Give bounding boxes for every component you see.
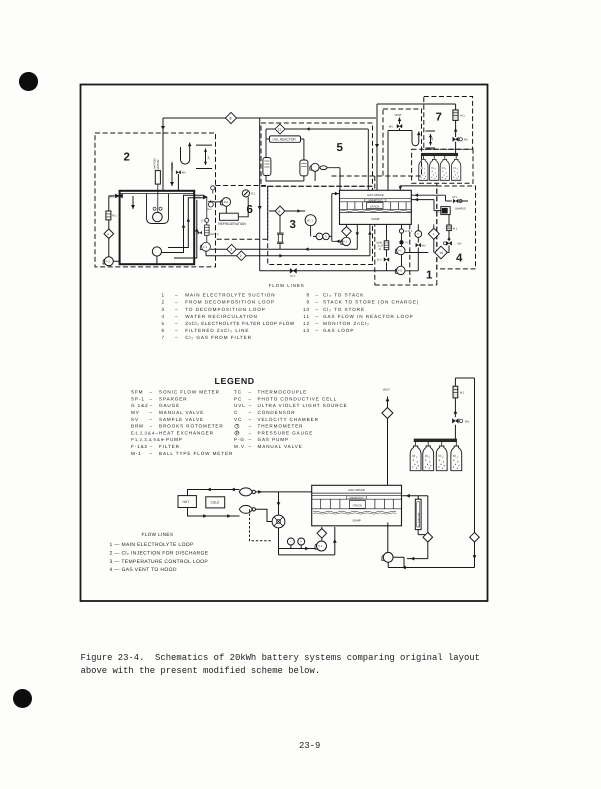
svg-text:–: – xyxy=(150,410,153,415)
bottle CL2 g xyxy=(436,446,447,471)
svg-text:–: – xyxy=(249,410,252,415)
pressure gauge xyxy=(298,538,305,545)
velocity oval xyxy=(320,166,327,170)
svg-text:M 1: M 1 xyxy=(460,115,465,118)
wire M-1 gas column xyxy=(455,104,457,153)
wire to diamond/P-2 xyxy=(346,224,348,237)
svg-text:HEAT EXCHANGER: HEAT EXCHANGER xyxy=(159,430,214,435)
arrow E1 out xyxy=(258,490,262,494)
svg-text:24": 24" xyxy=(208,156,211,160)
chlorine bottle box (dashed) xyxy=(412,149,473,183)
arrow into manifold right 1 xyxy=(415,193,419,197)
arrow monitor out xyxy=(411,557,415,561)
svg-text:3: 3 xyxy=(290,219,296,231)
diamond node 6 xyxy=(275,206,285,216)
pump P-3 xyxy=(104,257,113,266)
svg-text:–: – xyxy=(150,424,153,429)
sample valve SV xyxy=(205,218,209,222)
wire VC down xyxy=(311,226,332,237)
diamond node 8 xyxy=(225,112,236,123)
arrow loop1 up xyxy=(182,224,186,228)
wire flow line 8 top xyxy=(163,117,376,119)
svg-text:GAS LOOP: GAS LOOP xyxy=(323,328,354,333)
svg-text:2: 2 xyxy=(240,254,242,258)
svg-text:PHOTO CONDUCTIVE CELL: PHOTO CONDUCTIVE CELL xyxy=(258,396,338,401)
arrow dim7 dn xyxy=(429,142,432,145)
flow meter M-1 lower xyxy=(453,386,458,398)
svg-text:3: 3 xyxy=(161,307,165,312)
svg-text:G 1: G 1 xyxy=(208,208,213,211)
svg-text:ZnCl₂ ELECTROLYTE FILTER LOOP: ZnCl₂ ELECTROLYTE FILTER LOOP FLOW xyxy=(185,321,295,326)
svg-text:5: 5 xyxy=(161,321,165,326)
valve MV filler xyxy=(176,171,181,174)
svg-text:–: – xyxy=(150,390,153,395)
velocity chamber VC-1 xyxy=(305,215,316,226)
svg-text:P 1: P 1 xyxy=(398,250,402,253)
svg-text:VC: VC xyxy=(234,417,242,422)
svg-text:HOT: HOT xyxy=(183,500,190,504)
svg-text:MONITOR ZnCl₂: MONITOR ZnCl₂ xyxy=(323,321,370,326)
svg-text:–: – xyxy=(249,424,252,429)
arrow sump riser up xyxy=(333,539,337,543)
svg-text:–: – xyxy=(249,390,252,395)
valve MV at BRM-2 xyxy=(198,231,202,234)
sampler chain wire xyxy=(206,198,208,243)
svg-text:FILTER: FILTER xyxy=(159,444,180,449)
arrow gas col up xyxy=(454,128,458,132)
svg-text:VC 1: VC 1 xyxy=(307,218,314,222)
svg-text:FILTERED ZnCl₂ LINE: FILTERED ZnCl₂ LINE xyxy=(185,328,249,333)
flow meter M-1 top xyxy=(453,110,458,121)
svg-text:–: – xyxy=(150,417,153,422)
monitor loop xyxy=(402,496,428,559)
arrow gas return down xyxy=(473,555,477,559)
arrow rail A left xyxy=(305,247,309,251)
arrow dim7 up xyxy=(429,134,432,137)
wire bottles to manifold xyxy=(400,183,437,190)
stack cells lower xyxy=(321,499,394,509)
valve MV under BRM-1 xyxy=(384,258,389,262)
arrow vent lower up xyxy=(386,398,390,402)
hot reservoir box xyxy=(178,496,196,508)
tank draft tube xyxy=(147,194,169,224)
tank inner loop 1 xyxy=(162,195,204,252)
svg-text:8: 8 xyxy=(306,293,310,298)
flow meter M-1 xyxy=(106,211,111,220)
svg-text:1: 1 xyxy=(426,270,433,282)
diamond node 2 xyxy=(237,251,247,261)
diamond node 11 xyxy=(275,124,285,134)
svg-text:MOTOR: MOTOR xyxy=(157,159,160,169)
svg-text:P 3: P 3 xyxy=(106,261,110,264)
svg-text:SP-1: SP-1 xyxy=(131,396,145,401)
wire BRM-1 column xyxy=(386,224,388,270)
gauge G-2 xyxy=(242,190,249,197)
svg-text:SAMPLE: SAMPLE xyxy=(455,207,466,210)
svg-text:PRESSURE GAUGE: PRESSURE GAUGE xyxy=(258,430,314,435)
svg-text:M V: M V xyxy=(291,275,296,278)
svg-text:STACK: STACK xyxy=(370,204,379,208)
svg-text:ULTRA VIOLET LIGHT SOURCE: ULTRA VIOLET LIGHT SOURCE xyxy=(258,403,348,408)
wire reactor loop left xyxy=(266,129,304,160)
arrow P-2 suction xyxy=(336,240,340,244)
UVL reactor labelled box xyxy=(270,136,301,142)
wire P-1 out xyxy=(388,557,474,567)
pump P-5 xyxy=(202,242,211,251)
svg-text:M.V.: M.V. xyxy=(453,196,459,199)
arrow U7 up xyxy=(417,132,421,136)
svg-text:–: – xyxy=(249,430,252,435)
arrow into manifold xyxy=(335,192,339,196)
UV lamp fitting left xyxy=(116,194,123,197)
svg-text:–: – xyxy=(175,321,179,326)
svg-text:MANIFOLD: MANIFOLD xyxy=(368,199,382,202)
svg-text:10: 10 xyxy=(303,307,310,312)
svg-text:12: 12 xyxy=(303,321,310,326)
svg-text:SAMPLE VALVE: SAMPLE VALVE xyxy=(159,417,204,422)
svg-text:G 1&2: G 1&2 xyxy=(131,403,149,408)
wire PC to M-1 xyxy=(448,215,450,225)
arrow down to manifold xyxy=(375,144,379,148)
svg-text:REFRIGERATION: REFRIGERATION xyxy=(218,222,246,226)
svg-text:–: – xyxy=(249,417,252,422)
svg-text:UVL: UVL xyxy=(195,195,201,199)
svg-text:–: – xyxy=(316,328,320,333)
pressure gauge P xyxy=(323,233,330,240)
svg-text:STACK TO STORE (ON CHARGE): STACK TO STORE (ON CHARGE) xyxy=(323,300,419,305)
gauge G on riser xyxy=(211,186,215,190)
seal pot U-tube 24in xyxy=(181,143,213,169)
wire sump drop 2 xyxy=(369,224,371,255)
arrow down into tank xyxy=(161,126,165,130)
rotometer BRM-2 xyxy=(205,225,210,235)
svg-text:2: 2 xyxy=(124,152,130,164)
section box 4 (dashed) xyxy=(437,186,476,269)
svg-text:TC: TC xyxy=(234,390,242,395)
manifold label box xyxy=(365,199,386,202)
arrow pump feed xyxy=(277,502,281,506)
thermometer T xyxy=(316,233,323,240)
svg-text:SUMP: SUMP xyxy=(352,519,360,523)
svg-text:6: 6 xyxy=(161,328,165,333)
svg-text:7: 7 xyxy=(436,112,442,124)
svg-text:1: 1 xyxy=(161,293,165,298)
figure caption xyxy=(81,652,480,677)
wire SFM column xyxy=(401,224,403,266)
svg-text:P: P xyxy=(300,541,302,544)
svg-text:BROOKS ROTOMETER: BROOKS ROTOMETER xyxy=(159,424,224,429)
svg-text:–: – xyxy=(175,328,179,333)
arrow down downcomer xyxy=(258,206,262,210)
svg-text:MV: MV xyxy=(464,138,468,141)
svg-text:7: 7 xyxy=(161,335,165,340)
wire sump drop xyxy=(356,224,358,249)
arrow monitor into manifold xyxy=(406,494,410,498)
wire loop bottom xyxy=(266,168,340,191)
svg-text:Cl₂ TO STORE: Cl₂ TO STORE xyxy=(323,307,365,312)
svg-text:–: – xyxy=(249,396,252,401)
svg-text:FILLER: FILLER xyxy=(171,161,174,170)
agitator shaft xyxy=(157,184,159,212)
wire manifold left riser xyxy=(332,194,342,242)
svg-text:BALL TYPE FLOW METER: BALL TYPE FLOW METER xyxy=(159,451,233,456)
flow meter M-1 xyxy=(447,225,452,231)
pressure gauge P xyxy=(415,231,422,238)
pump P-1 lower xyxy=(383,552,393,562)
arrow outer pipe up xyxy=(195,228,199,232)
svg-text:TO DECOMPOSITION LOOP: TO DECOMPOSITION LOOP xyxy=(185,307,266,312)
valve MV rail C xyxy=(290,268,296,273)
gas return loop right xyxy=(455,378,474,568)
svg-text:Cl₂ MONITOR: Cl₂ MONITOR xyxy=(417,512,420,526)
bottle CL2 e xyxy=(410,446,421,471)
hole punch top xyxy=(19,72,38,91)
bottle CL2 b xyxy=(430,159,439,180)
photo cell PC box xyxy=(441,207,450,215)
tank outer downpipe xyxy=(174,200,197,258)
svg-text:–: – xyxy=(175,335,179,340)
heat exchanger E-1 xyxy=(239,488,252,496)
arrow dim bottom xyxy=(204,162,207,165)
arrow loop top xyxy=(207,488,211,492)
arrow vent up xyxy=(398,118,402,122)
tank inner loop 2 xyxy=(168,198,204,248)
svg-text:P: P xyxy=(325,236,327,239)
svg-text:PC: PC xyxy=(234,396,242,401)
wire pump suction xyxy=(213,201,222,203)
svg-text:11: 11 xyxy=(278,128,282,132)
cold reservoir box xyxy=(206,497,225,508)
figure frame xyxy=(81,85,488,602)
bottle manifold bar xyxy=(421,153,457,156)
heat exchanger E-2 xyxy=(239,505,252,513)
svg-text:MV: MV xyxy=(422,244,426,247)
svg-text:SFM 1: SFM 1 xyxy=(405,230,413,233)
svg-text:4: 4 xyxy=(456,253,463,265)
diamond node 4 xyxy=(104,229,114,239)
arrow loop bottom xyxy=(203,514,207,518)
arrow gas return left xyxy=(402,566,406,570)
bottle CL2 f xyxy=(423,446,434,471)
svg-text:SFM: SFM xyxy=(131,390,143,395)
svg-text:4: 4 xyxy=(161,314,165,319)
wire M-1 to valve xyxy=(447,231,449,253)
left instrument chain xyxy=(103,196,120,266)
svg-text:2: 2 xyxy=(161,300,165,305)
svg-text:M 1: M 1 xyxy=(460,390,465,394)
pump P-4 xyxy=(311,163,319,171)
section box 7 (dashed) xyxy=(424,97,473,150)
sonic flow meter SFM-1 xyxy=(399,229,403,233)
diamond node 3 xyxy=(227,244,237,254)
svg-text:1 — MAIN ELECTROLYTE LOOP: 1 — MAIN ELECTROLYTE LOOP xyxy=(110,542,195,548)
svg-text:G 2: G 2 xyxy=(251,192,256,196)
wire drop into tank xyxy=(162,118,164,191)
pump P-2 in tank xyxy=(152,247,161,256)
hole punch bottom xyxy=(13,689,32,708)
svg-text:GAS SPACE: GAS SPACE xyxy=(367,193,384,197)
pump P-A xyxy=(222,198,231,207)
svg-text:–: – xyxy=(316,307,320,312)
svg-text:6: 6 xyxy=(279,210,281,214)
svg-text:P 1, 2, 3, 4, 5 & 6: P 1, 2, 3, 4, 5 & 6 xyxy=(131,437,164,442)
svg-text:MV: MV xyxy=(458,243,462,246)
svg-text:–: – xyxy=(150,451,153,456)
svg-text:13: 13 xyxy=(303,328,310,333)
svg-text:P-G: P-G xyxy=(234,437,245,442)
pump P-2 xyxy=(342,237,350,245)
svg-text:VELOCITY CHAMBER: VELOCITY CHAMBER xyxy=(258,417,319,422)
svg-text:9: 9 xyxy=(306,300,310,305)
arrow reactor loop xyxy=(306,127,310,131)
pump P-1 xyxy=(397,246,405,254)
section box 6 (dashed) xyxy=(216,186,268,240)
svg-text:MV: MV xyxy=(131,410,140,415)
svg-text:–: – xyxy=(316,293,320,298)
svg-text:MAIN ELECTROLYTE SUCTION: MAIN ELECTROLYTE SUCTION xyxy=(185,293,275,298)
svg-text:FLOW LINES: FLOW LINES xyxy=(269,283,305,288)
vent riser xyxy=(387,397,389,486)
section box 3 (dashed) xyxy=(268,186,373,264)
dimension 24in xyxy=(426,131,436,148)
section box 5 (dashed) xyxy=(261,123,373,186)
arrow store to manifold xyxy=(399,186,402,189)
svg-text:–: – xyxy=(175,293,179,298)
diamond node xyxy=(342,227,352,237)
wire rail B xyxy=(206,251,370,256)
valve MV sample xyxy=(453,199,458,203)
seal pot U-tube 7 xyxy=(388,131,419,146)
condensor C-1 xyxy=(263,158,271,176)
wire main downcomer xyxy=(259,118,261,271)
diamond node P-2 xyxy=(317,529,327,539)
mixing pump with cross xyxy=(272,515,285,528)
svg-text:WATER RECIRCULATION: WATER RECIRCULATION xyxy=(185,314,258,319)
thermocouple TC xyxy=(400,241,403,244)
svg-text:–: – xyxy=(316,314,320,319)
arrow M-1 lower up xyxy=(454,410,458,414)
svg-text:MANUAL VALVE: MANUAL VALVE xyxy=(258,444,303,449)
svg-text:THERMOMETER: THERMOMETER xyxy=(258,424,304,429)
UV lamp fitting right xyxy=(204,195,207,198)
wire reactor loop top xyxy=(266,129,368,191)
pump P-1 in tank xyxy=(153,212,163,222)
svg-text:3 — TEMPERATURE CONTROL LOOP: 3 — TEMPERATURE CONTROL LOOP xyxy=(110,559,209,565)
arrow loop top 2 xyxy=(231,488,235,492)
bottle manifold bar lower xyxy=(414,439,457,442)
svg-text:SUMP: SUMP xyxy=(371,217,379,221)
svg-text:VENT: VENT xyxy=(383,387,391,391)
svg-text:M.V.: M.V. xyxy=(377,259,382,262)
wire rail C bottom xyxy=(260,270,397,272)
diamond gas return xyxy=(470,532,480,542)
right side fittings of tank xyxy=(200,186,215,251)
valve MV section4 xyxy=(446,241,451,245)
svg-text:SONIC FLOW METER: SONIC FLOW METER xyxy=(159,390,220,395)
arrow U-tube up xyxy=(188,143,192,147)
bottle CL2 h xyxy=(451,446,462,471)
stack manifold block lower xyxy=(312,485,402,526)
diamond node 13 xyxy=(435,246,448,259)
section box 2 (dashed) xyxy=(95,133,216,267)
svg-text:–: – xyxy=(150,444,153,449)
svg-text:24": 24" xyxy=(431,137,434,141)
arrow M-1 up xyxy=(447,237,450,240)
gauge G-1 xyxy=(208,202,213,207)
bottle CL2 c xyxy=(440,159,449,180)
thermometer gauge xyxy=(287,538,294,545)
diamond vent xyxy=(382,408,393,419)
wire rail A xyxy=(210,248,357,250)
svg-text:TC: TC xyxy=(405,242,409,245)
filler line with MV valve xyxy=(172,163,178,191)
arrow tank internal xyxy=(131,205,135,209)
svg-text:–: – xyxy=(150,403,153,408)
pump P-2 xyxy=(317,541,327,551)
svg-text:STACK: STACK xyxy=(353,503,362,507)
svg-text:BRM 2: BRM 2 xyxy=(211,233,219,236)
arrow dim top xyxy=(204,149,207,152)
svg-text:–: – xyxy=(316,321,320,326)
svg-text:F-1&2: F-1&2 xyxy=(131,444,148,449)
svg-text:–: – xyxy=(249,444,252,449)
wire left chain xyxy=(109,196,120,261)
gas pump P-G xyxy=(397,266,405,274)
bottle CL2 d xyxy=(452,159,461,180)
section box 1 (dashed) xyxy=(332,176,437,285)
svg-text:CONDENSOR: CONDENSOR xyxy=(258,410,296,415)
svg-text:11: 11 xyxy=(303,314,310,319)
manifold block (bottom) xyxy=(312,485,402,526)
svg-text:S V: S V xyxy=(201,219,205,222)
wire E-1 to manifold xyxy=(256,491,312,493)
rotometer BRM-1 xyxy=(384,241,389,250)
svg-text:Cl₂ TO STACK: Cl₂ TO STACK xyxy=(323,293,364,298)
svg-text:MV: MV xyxy=(465,419,469,423)
svg-text:GAS FLOW IN REACTOR LOOP: GAS FLOW IN REACTOR LOOP xyxy=(323,314,414,319)
spool vessel F xyxy=(277,233,284,243)
arrow into P-2 xyxy=(305,547,309,551)
page number xyxy=(299,740,320,753)
svg-text:THERMOCOUPLE: THERMOCOUPLE xyxy=(258,390,308,395)
svg-text:GAUGE: GAUGE xyxy=(159,403,180,408)
condensor C-2 xyxy=(300,160,308,176)
wire gauge branch xyxy=(279,545,316,549)
svg-text:M 1: M 1 xyxy=(112,215,117,218)
tank T1 xyxy=(120,191,195,264)
svg-text:6: 6 xyxy=(247,204,253,216)
valve MV gauge column xyxy=(416,243,421,247)
arrow sump drop xyxy=(356,232,360,236)
svg-text:M: M xyxy=(379,248,381,251)
svg-text:13: 13 xyxy=(439,251,443,255)
wire pump to refrigeration xyxy=(226,197,248,217)
svg-text:MANUAL VALVE: MANUAL VALVE xyxy=(159,410,204,415)
valve MV vent xyxy=(397,124,402,128)
wire sump to P-1 xyxy=(387,523,389,553)
svg-text:P G: P G xyxy=(398,270,402,273)
arrow rail B right xyxy=(279,254,283,258)
svg-text:MV: MV xyxy=(182,172,186,175)
svg-text:P 3: P 3 xyxy=(203,246,207,249)
svg-text:–: – xyxy=(175,300,179,305)
svg-text:4 — GAS VENT TO HOOD: 4 — GAS VENT TO HOOD xyxy=(110,567,177,573)
svg-text:P A: P A xyxy=(224,200,228,204)
svg-text:M 1: M 1 xyxy=(453,227,458,230)
wire flow line 9 top xyxy=(377,104,456,191)
wire gauge column xyxy=(405,224,418,270)
svg-text:UVL REACTOR: UVL REACTOR xyxy=(273,138,297,142)
